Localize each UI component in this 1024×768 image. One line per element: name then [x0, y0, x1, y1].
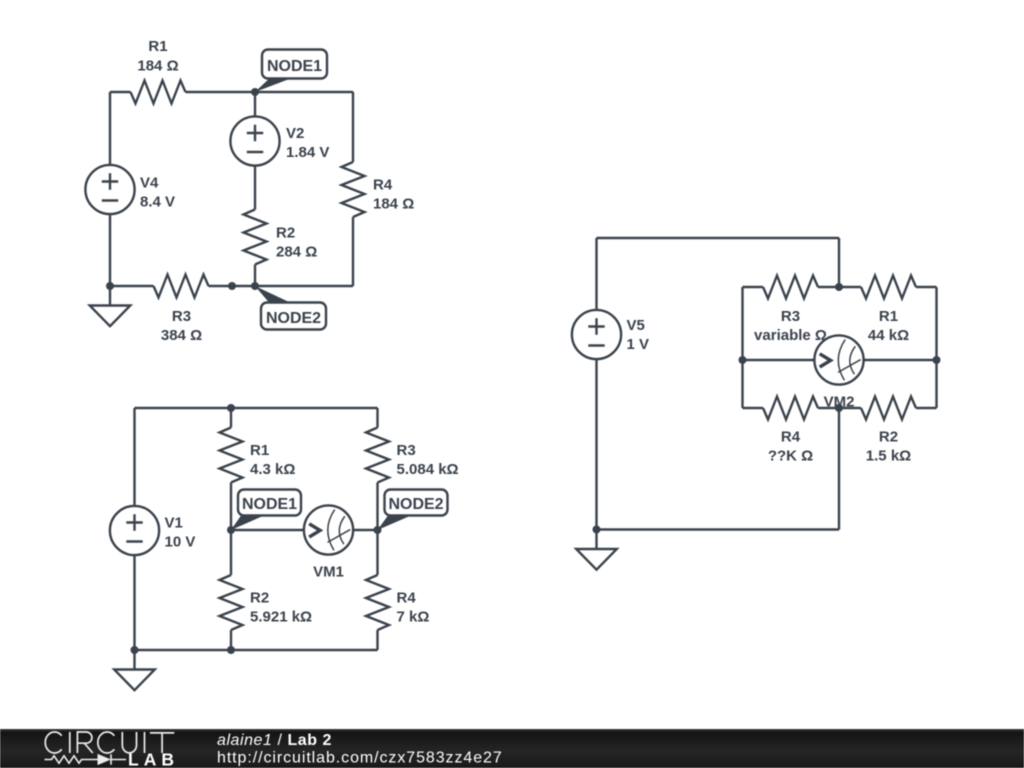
svg-text:R3: R3	[397, 442, 416, 459]
wire	[254, 166, 256, 210]
wire	[916, 407, 937, 409]
node junction dot	[251, 88, 259, 96]
resistor R4	[342, 162, 365, 217]
CircuitLab logo resistor-diode glyph	[45, 754, 127, 764]
svg-text:R2: R2	[276, 225, 295, 242]
svg-text:VM1: VM1	[313, 564, 344, 581]
CircuitLab logo diode triangle	[98, 754, 112, 765]
wire	[230, 483, 232, 576]
svg-text:alaine1 / Lab 2: alaine1 / Lab 2	[217, 732, 332, 749]
svg-text:NODE2: NODE2	[266, 310, 321, 327]
node junction dot	[739, 356, 747, 364]
wire	[818, 407, 861, 409]
svg-text:R2: R2	[879, 429, 898, 446]
resistor R4	[763, 397, 818, 420]
wire	[254, 92, 256, 116]
wire	[230, 408, 232, 428]
svg-text:R4: R4	[781, 429, 801, 446]
wire	[743, 407, 764, 409]
voltage source V5	[572, 310, 621, 359]
svg-text:R4: R4	[373, 177, 393, 194]
wire	[864, 359, 937, 361]
wire	[818, 286, 861, 288]
wire	[743, 286, 764, 288]
wire	[231, 529, 304, 531]
svg-text:5.084 kΩ: 5.084 kΩ	[397, 461, 459, 478]
svg-text:384 Ω: 384 Ω	[161, 327, 202, 344]
resistor R3	[154, 275, 209, 298]
svg-text:LAB: LAB	[128, 750, 179, 768]
svg-text:1.5 kΩ: 1.5 kΩ	[866, 448, 911, 465]
wire	[838, 238, 840, 287]
svg-text:1 V: 1 V	[627, 336, 650, 353]
wire	[741, 287, 743, 408]
svg-text:R4: R4	[397, 590, 417, 607]
node junction dot	[835, 404, 843, 412]
svg-text:http://circuitlab.com/czx7583z: http://circuitlab.com/czx7583zz4e27	[217, 750, 503, 767]
svg-text:V4: V4	[140, 175, 159, 192]
wire	[254, 265, 256, 287]
wire	[352, 92, 354, 162]
resistor R4	[366, 575, 389, 630]
wire	[133, 408, 135, 506]
resistor R3	[366, 428, 389, 483]
voltmeter VM2	[814, 335, 863, 384]
svg-text:R1: R1	[250, 442, 269, 459]
node junction dot	[251, 282, 259, 290]
voltmeter VM1	[304, 505, 353, 554]
wire	[935, 287, 937, 408]
node junction dot	[227, 404, 235, 412]
wire	[376, 408, 378, 428]
wire	[133, 555, 135, 650]
node NODE1 flag	[255, 50, 327, 93]
voltage source V4	[85, 165, 134, 214]
node NODE2 flag	[378, 490, 448, 531]
resistor R3	[763, 276, 818, 299]
svg-text:5.921 kΩ: 5.921 kΩ	[250, 609, 312, 626]
wire	[838, 408, 840, 530]
svg-text:R3: R3	[172, 308, 191, 325]
node junction dot	[835, 283, 843, 291]
node junction dot	[228, 282, 236, 290]
wire	[352, 217, 354, 286]
wire	[109, 92, 111, 165]
CircuitLab logo CIRCUIT wordmark	[45, 732, 174, 753]
svg-text:NODE1: NODE1	[242, 496, 297, 513]
svg-text:V2: V2	[286, 125, 304, 142]
resistor R1	[131, 81, 186, 104]
ground	[576, 530, 617, 570]
node junction dot	[227, 646, 235, 654]
wire	[916, 286, 937, 288]
node junction dot	[933, 356, 941, 364]
node junction dot	[106, 282, 114, 290]
svg-text:??K Ω: ??K Ω	[768, 448, 813, 465]
svg-text:1.84 V: 1.84 V	[286, 144, 329, 161]
resistor R2	[220, 575, 243, 630]
svg-text:8.4 V: 8.4 V	[140, 194, 175, 211]
ground	[90, 286, 131, 326]
wire	[135, 407, 378, 409]
wire	[110, 285, 154, 287]
node NODE1 flag	[231, 490, 301, 531]
wire	[597, 528, 840, 530]
svg-text:44 kΩ: 44 kΩ	[868, 327, 909, 344]
svg-text:184 Ω: 184 Ω	[373, 196, 414, 213]
wire	[595, 359, 597, 529]
svg-text:R2: R2	[250, 590, 269, 607]
wire	[376, 483, 378, 576]
voltage source V2	[230, 116, 279, 165]
node NODE2 flag	[255, 286, 326, 330]
resistor R1	[861, 276, 916, 299]
svg-text:NODE2: NODE2	[388, 496, 443, 513]
wire	[135, 649, 378, 651]
node junction dot	[593, 526, 601, 534]
resistor R2	[861, 397, 916, 420]
svg-text:184 Ω: 184 Ω	[137, 58, 178, 75]
wire	[376, 630, 378, 650]
svg-text:variable Ω: variable Ω	[754, 327, 827, 344]
svg-text:R3: R3	[781, 308, 800, 325]
ground	[114, 650, 155, 690]
node junction dot	[374, 526, 382, 534]
svg-text:R1: R1	[879, 308, 898, 325]
svg-text:4.3 kΩ: 4.3 kΩ	[250, 461, 295, 478]
wire	[595, 238, 597, 310]
resistor R1	[220, 428, 243, 483]
wire	[186, 91, 354, 93]
svg-text:R1: R1	[148, 38, 167, 55]
wire	[230, 630, 232, 650]
wire	[209, 285, 354, 287]
wire	[109, 214, 111, 286]
resistor R2	[244, 210, 267, 265]
wire	[353, 529, 377, 531]
voltage source V1	[110, 506, 159, 555]
svg-text:10 V: 10 V	[165, 534, 196, 551]
node junction dot	[131, 646, 139, 654]
svg-text:7 kΩ: 7 kΩ	[397, 609, 430, 626]
svg-text:V5: V5	[627, 317, 645, 334]
svg-text:284 Ω: 284 Ω	[276, 244, 317, 261]
svg-text:NODE1: NODE1	[267, 58, 322, 75]
wire	[110, 91, 131, 93]
wire	[743, 359, 815, 361]
node junction dot	[227, 526, 235, 534]
wire	[597, 237, 840, 239]
svg-text:V1: V1	[165, 515, 183, 532]
